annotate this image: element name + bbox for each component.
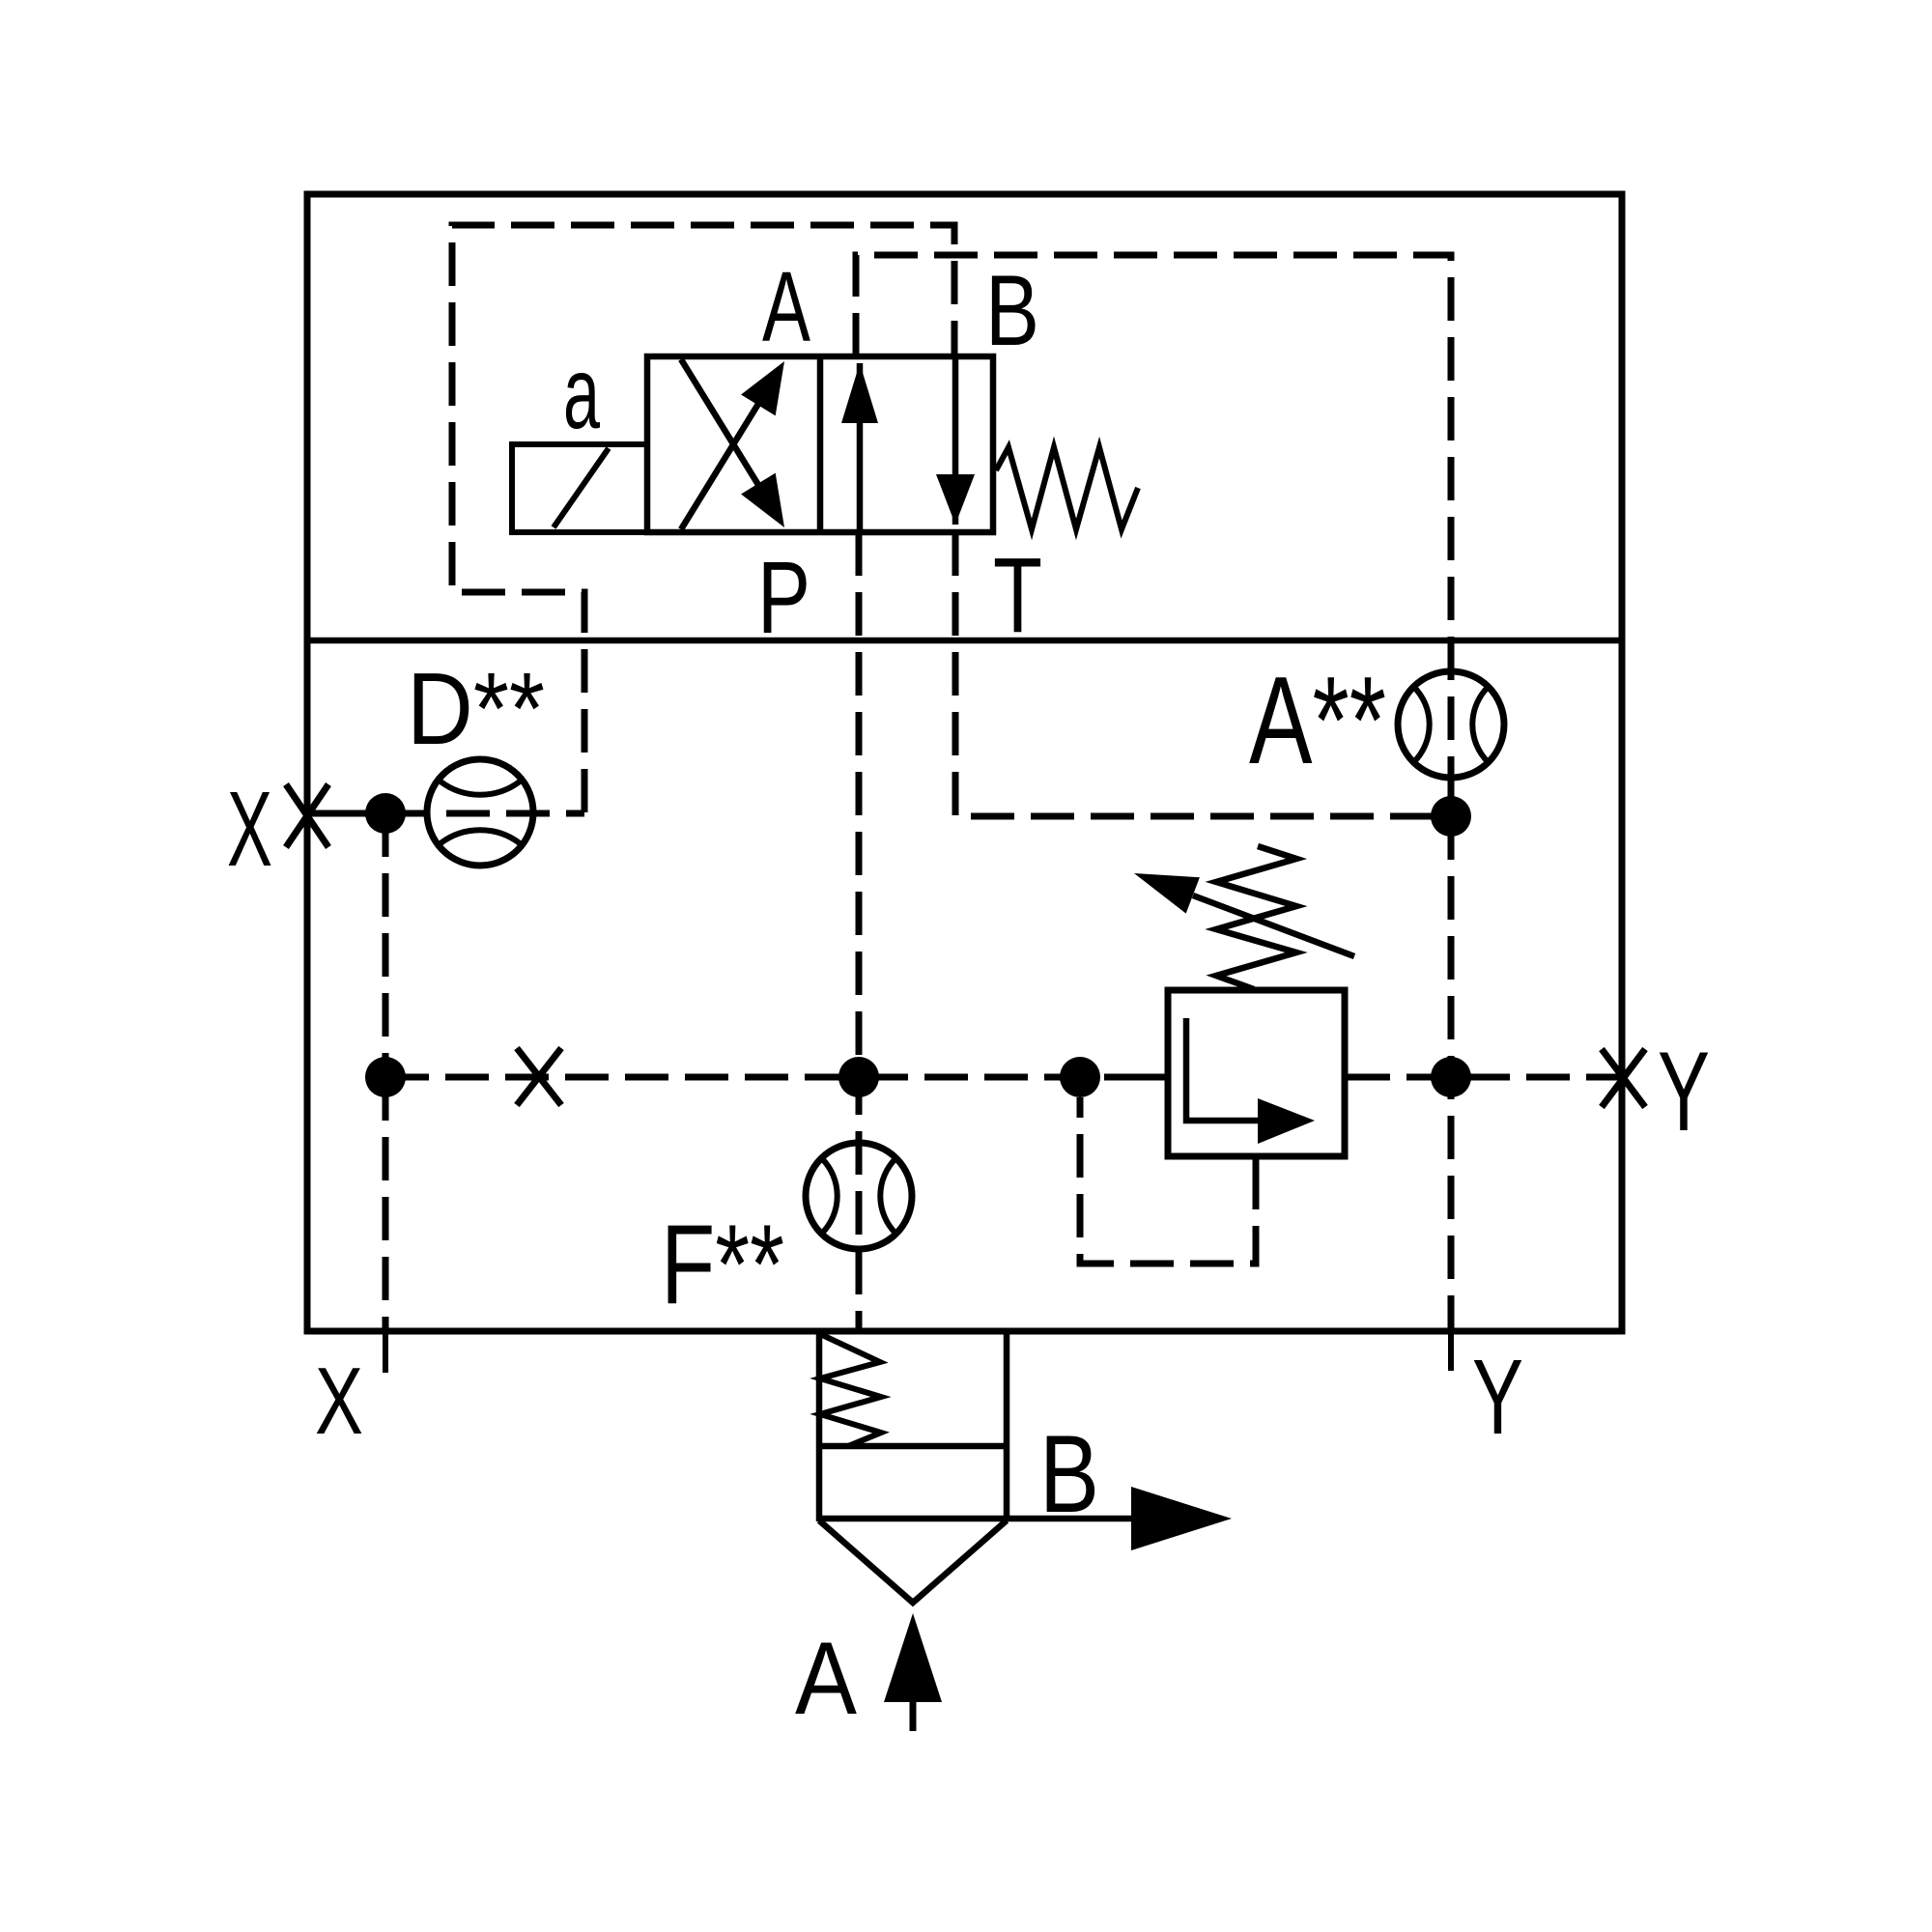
junction node X2: [365, 1057, 406, 1097]
svg-text:T: T: [993, 536, 1042, 655]
outer block boundary: [307, 194, 1622, 1331]
logic valve body lines: [819, 1328, 1007, 1521]
svg-text:A: A: [795, 1620, 858, 1736]
pilot valve up arrow: [841, 363, 878, 530]
junction node P-mid: [838, 1057, 879, 1097]
pilot valve U1 body: [647, 356, 993, 532]
relief valve drain loop: [1080, 1097, 1256, 1264]
svg-text:X: X: [315, 1348, 363, 1454]
svg-text:F**: F**: [661, 1201, 784, 1327]
pilot valve crossed arrow P-A: [681, 361, 784, 529]
svg-text:A**: A**: [1249, 651, 1386, 790]
Y port plug cross: [1602, 1049, 1645, 1107]
X port stub line: [307, 810, 386, 817]
pilot valve return spring: [996, 447, 1138, 529]
pilot valve down arrow: [936, 357, 975, 525]
svg-text:B: B: [985, 255, 1039, 367]
svg-text:D**: D**: [407, 652, 545, 766]
logic valve poppet seat: [819, 1520, 1007, 1603]
pilot valve crossed arrow T-B: [681, 359, 784, 527]
relief valve port stubs: [1126, 1077, 1387, 1209]
solenoid a box: [512, 444, 647, 532]
X pilot line vertical upper: [383, 813, 389, 1077]
svg-text:P: P: [757, 541, 810, 655]
logic valve spring: [820, 1334, 881, 1446]
relief valve spring: [1216, 846, 1296, 989]
svg-text:B: B: [1039, 1413, 1099, 1536]
svg-text:X: X: [227, 770, 272, 889]
junction node A-branch: [1431, 796, 1471, 837]
svg-text:A: A: [762, 251, 810, 362]
orifice D**: [427, 759, 533, 866]
middle pilot line left: [385, 1074, 1168, 1081]
T drain line: [955, 532, 1451, 816]
svg-text:Y: Y: [1658, 1028, 1710, 1154]
relief valve adjustment arrow: [1134, 873, 1354, 956]
junction node Y-mid: [1431, 1057, 1471, 1097]
closed port cross mid: [517, 1048, 561, 1105]
pilot line box D branch: [452, 225, 954, 812]
port B arrowhead: [1131, 1487, 1232, 1550]
Y bottom port stub: [1448, 1334, 1454, 1371]
port B flow line: [1007, 1516, 1135, 1522]
svg-text:a: a: [563, 336, 600, 450]
port A arrow: [884, 1613, 942, 1731]
P pilot supply line: [856, 532, 863, 1331]
svg-text:Y: Y: [1472, 1338, 1523, 1457]
junction node relief-left: [1060, 1057, 1100, 1097]
middle pilot line right: [1347, 1074, 1622, 1081]
relief valve RV body: [1168, 990, 1345, 1156]
X pilot line vertical lower: [383, 1077, 389, 1331]
X pilot line horizontal: [386, 810, 584, 817]
pilot line box B branch: [856, 255, 1451, 816]
orifice A**: [1398, 671, 1504, 778]
relief valve flow path arrow: [1186, 1018, 1315, 1144]
Y drain line vertical: [1448, 816, 1455, 1331]
X port plug cross: [286, 784, 328, 847]
junction node X1: [365, 793, 406, 834]
X bottom port stub: [383, 1334, 388, 1373]
orifice F**: [806, 1143, 912, 1249]
block divider line: [307, 638, 1622, 644]
